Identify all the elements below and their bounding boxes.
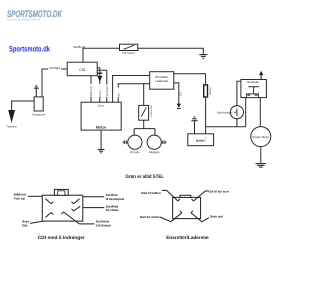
CDI pin top-right [72,199,80,204]
svg-text:Tændspole: Tændspole [32,113,46,116]
rectifier box (Ensretter/Laderelae) [150,72,174,90]
leader to Sort/Hvid label [79,223,94,225]
leader to Pick Up label [28,195,43,197]
kill switch SW1 [120,44,138,55]
svg-text:Kill Switch: Kill Switch [96,223,111,227]
start button (Start kontakt) [217,106,244,119]
svg-text:Start kontakt: Start kontakt [217,111,232,114]
svg-text:Grøn er altid STEL: Grøn er altid STEL [126,174,165,180]
svg-text:Tændrør: Tændrør [6,125,17,128]
svg-text:Kill Switch: Kill Switch [122,52,135,55]
svg-text:til tændspole: til tændspole [106,197,125,201]
wire CDI top to kill switch (Sort/hvid) [83,48,120,62]
svg-text:Blå/hvid: Blå/hvid [89,86,93,96]
svg-text:-: - [193,136,194,140]
svg-text:Laderelæ: Laderelæ [155,79,168,83]
CDI connector tab [54,189,68,195]
CDI pin mid-right [72,206,81,211]
battery minus to chassis ground (up) [194,121,196,134]
wire kill switch to ground [138,48,204,54]
wire A CDI bottom to motor [90,76,92,103]
label Groen Stel [22,219,29,227]
svg-text:Sort/hvid: Sort/hvid [73,45,85,49]
CDI pin bottom-right [61,212,79,224]
ground right of kill switch [199,55,207,59]
svg-text:CDI: CDI [79,68,85,72]
svg-text:Sikring: Sikring [209,87,212,95]
wires light switch to lamps [143,120,145,128]
svg-text:Lyskontakt: Lyskontakt [150,105,153,118]
CDI box [67,62,97,75]
relay arrow up [259,71,263,80]
svg-text:Sort/gul: Sort/gul [49,66,60,70]
taillight (Baglygte) [147,135,161,154]
logo SPORTSMOTO.DK [7,8,63,21]
ignition coil (Taendspole) [32,97,46,117]
wire relay left to branch [245,98,247,127]
wire label gaps [90,84,120,98]
svg-text:CDI med 5 ledninger: CDI med 5 ledninger [38,235,85,240]
wire start button to branch [236,119,238,127]
wire rectifier Gul to ground [174,83,179,104]
headlight (Forlygte) [128,135,142,154]
wire B CDI right to motor [97,68,100,103]
connector left of headlight [126,141,128,143]
svg-text:Baglygte: Baglygte [149,151,160,154]
wire D motor to rectifier upper [113,76,150,103]
starter motor [251,127,271,147]
battery [188,134,214,146]
CDI pin bottom-left [45,212,53,217]
label Sort/Hvid Kill Switch [96,219,111,227]
connector right of taillight [161,141,163,143]
wire start button to relay [237,81,241,105]
svg-text:DIN MC OG SCOOTER BUTIK: DIN MC OG SCOOTER BUTIK [8,18,41,21]
svg-text:SPORTSMOTO.DK: SPORTSMOTO.DK [7,8,63,19]
svg-text:Stator: Stator [98,105,105,108]
leader to Sort/Roed label [83,207,105,209]
rectifier pin top-left with leader Roed til batteri [162,190,180,201]
svg-text:Sort/rød: Sort/rød [105,86,109,97]
motor box with stator [81,102,121,130]
coil ground (up) [34,85,39,97]
svg-text:Pick Up: Pick Up [14,196,25,200]
svg-text:Stel: Stel [22,223,28,227]
ground arrow below Gul wire [177,104,181,109]
label Sort/Roed fra stator [106,204,120,212]
CDI pin top-left [45,199,53,204]
svg-text:Motor: Motor [96,125,107,129]
wire fuse to battery plus [205,97,207,134]
wire C CDI right to motor [97,70,107,102]
label Sort/Gul til taendspole [106,193,125,201]
wire branch battery to start circuit [206,126,246,128]
svg-text:+: + [205,136,207,140]
wire E motor to rectifier lower [118,84,150,102]
rectifier pin bottom-left with leader Roed fra motor [160,211,182,222]
svg-text:StartRelæ: StartRelæ [247,81,260,84]
svg-text:Rød til batteri: Rød til batteri [141,191,160,195]
svg-text:fra stator: fra stator [106,208,120,212]
wire rectifier to fuse [174,74,206,85]
leader to Sort/Gul label [83,196,105,198]
fuse F1 [204,85,213,97]
svg-text:Grøn: Grøn [98,90,102,97]
svg-text:Forlygte: Forlygte [130,151,140,154]
motor ground [100,130,102,149]
svg-text:Ensretter/Laderelæ: Ensretter/Laderelæ [166,235,209,240]
starter motor ground [260,147,262,164]
rectifier pin top-right with leader Gul til lys [192,191,209,201]
start relay (StartRelae) [241,80,267,98]
leader to Stel label [30,221,42,223]
wire CDI left to ignition coil (Sort/gul) [42,69,67,97]
rectifier pin bottom-right with leader Groen stel [191,211,209,222]
connector on wire B [97,73,102,82]
light switch [139,105,153,121]
svg-text:Gul: Gul [116,93,120,98]
wire tap to light switch [143,84,145,106]
spark plug (Taendroer) [6,110,17,128]
label Blaa/Hvid Pick Up [14,192,26,200]
svg-text:Starter Motor: Starter Motor [252,135,269,139]
wire relay to starter motor [259,98,261,127]
wire coil to spark plug [12,101,34,111]
svg-text:Gul: Gul [179,92,182,97]
rectifier connector diagram box [160,190,209,221]
rectifier connector top bump [180,195,191,197]
label Sort/gul [48,65,61,70]
svg-text:Gul til lys m.m: Gul til lys m.m [208,189,229,193]
CDI connector diagram box [28,189,105,224]
svg-text:Grøn stel: Grøn stel [210,214,223,218]
svg-text:Rød fra motor: Rød fra motor [140,215,161,219]
svg-text:Sportsmoto.dk: Sportsmoto.dk [9,45,50,54]
